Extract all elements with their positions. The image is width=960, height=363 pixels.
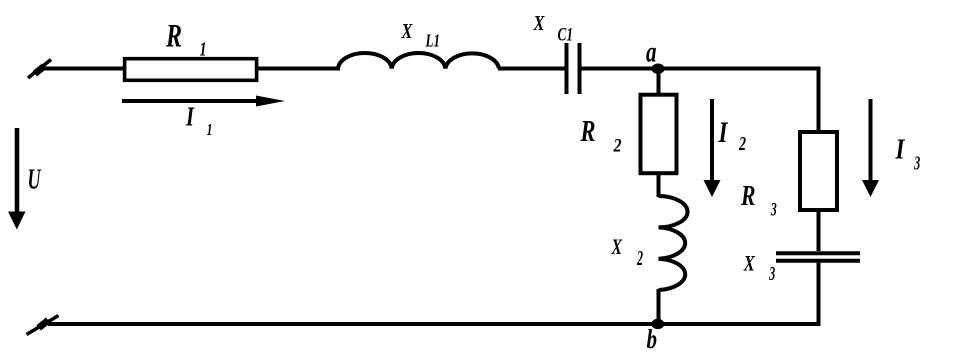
label XL1 xyxy=(401,19,440,51)
svg-text:2: 2 xyxy=(636,246,643,270)
label I3 xyxy=(895,134,920,175)
svg-text:X: X xyxy=(401,19,414,43)
svg-text:3: 3 xyxy=(769,263,776,285)
svg-text:1: 1 xyxy=(200,39,207,60)
current arrow I2 xyxy=(704,99,721,197)
node a xyxy=(652,63,665,73)
svg-text:L1: L1 xyxy=(425,31,440,51)
current arrow I1 xyxy=(122,96,285,107)
label X3 xyxy=(743,250,775,285)
capacitor X3 xyxy=(776,253,860,261)
terminal bottom-left xyxy=(27,316,59,335)
current arrow I3 xyxy=(862,99,879,197)
label XC1 xyxy=(533,11,573,46)
label R2 xyxy=(580,113,622,157)
svg-text:R: R xyxy=(165,19,182,55)
svg-text:R: R xyxy=(740,180,755,212)
svg-text:C1: C1 xyxy=(558,24,574,45)
wire R3 to X3 xyxy=(817,210,821,251)
wire R2 to X2 xyxy=(657,173,661,197)
wire R1 to L1 xyxy=(258,67,340,71)
svg-text:X: X xyxy=(533,11,546,35)
resistor R1 xyxy=(125,59,257,81)
wire L1 to C1 xyxy=(498,67,565,71)
svg-text:I: I xyxy=(895,134,906,166)
resistor R2 xyxy=(641,95,677,174)
svg-text:1: 1 xyxy=(207,120,213,139)
terminal top-left input xyxy=(28,60,51,79)
wire bottom xyxy=(48,322,821,326)
svg-text:U: U xyxy=(28,164,42,196)
label I2 xyxy=(718,116,746,155)
svg-text:I: I xyxy=(718,116,729,149)
svg-text:2: 2 xyxy=(738,133,746,155)
label X2 xyxy=(611,234,644,270)
wire node a to corner and down to R3 xyxy=(659,67,821,132)
svg-text:R: R xyxy=(580,113,596,148)
svg-text:X: X xyxy=(743,250,756,275)
wire C1 to node a xyxy=(580,67,659,71)
wire top-left to R1 xyxy=(39,67,125,71)
svg-text:3: 3 xyxy=(914,153,921,175)
label R3 xyxy=(740,180,777,221)
wire node a to R2 xyxy=(657,69,661,94)
inductor L1 xyxy=(338,53,499,68)
svg-text:b: b xyxy=(647,324,658,354)
svg-text:3: 3 xyxy=(770,201,777,221)
svg-text:I: I xyxy=(185,102,195,132)
inductor X2 xyxy=(659,196,688,290)
label I1 xyxy=(185,102,212,139)
svg-text:a: a xyxy=(646,36,657,69)
resistor R3 xyxy=(800,132,837,210)
svg-text:2: 2 xyxy=(613,136,622,157)
wire X3 to bottom corner xyxy=(817,261,821,326)
svg-text:X: X xyxy=(611,234,623,259)
wire X2 to node b xyxy=(657,289,661,324)
node b xyxy=(651,319,664,329)
capacitor C1 xyxy=(567,43,580,94)
voltage arrow U xyxy=(8,128,26,230)
label R1 xyxy=(165,19,206,61)
